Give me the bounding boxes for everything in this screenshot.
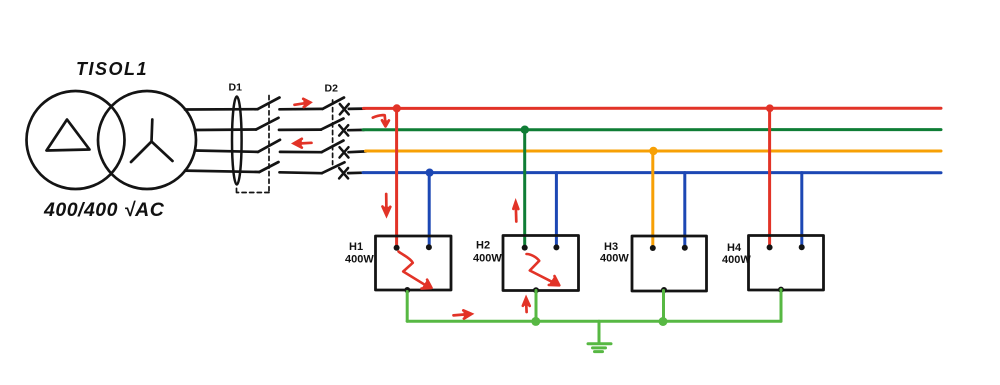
node junction orange L3/H3 — [649, 147, 657, 155]
H1 terminal pin right — [426, 244, 432, 250]
wire red drop to H4 — [768, 108, 771, 247]
wire green drop to H2 — [523, 130, 526, 248]
wire orange drop to H3 — [651, 151, 654, 248]
H4 terminal pin left — [767, 244, 773, 250]
D1 blade L3 — [258, 140, 280, 152]
H4 terminal pin bottom — [778, 287, 784, 293]
svg-text:TISOL1: TISOL1 — [76, 59, 148, 79]
breaker contact X on L2 — [339, 125, 348, 135]
wire L4 D1 to D2 — [280, 171, 322, 175]
wire L3 transformer to D1 — [195, 151, 258, 152]
H2 terminal pin left — [522, 245, 528, 251]
wire blue drop to H4 — [800, 173, 803, 247]
PE wire H4 bottom to earth bus — [780, 290, 783, 322]
wire stub L1 X to bus — [349, 107, 365, 110]
svg-text:H1: H1 — [349, 241, 363, 253]
ground earth symbol — [588, 321, 611, 351]
bus L1 red — [364, 107, 942, 110]
svg-text:D1: D1 — [229, 82, 243, 94]
wire L4 transformer to D1 — [185, 171, 259, 172]
svg-text:H2: H2 — [476, 240, 490, 252]
PE wire H3 bottom to earth bus — [662, 291, 665, 322]
svg-text:400W: 400W — [473, 253, 502, 265]
node junction PE H3 — [659, 317, 668, 326]
current arrow down on red drop — [383, 194, 391, 215]
svg-text:400W: 400W — [722, 254, 751, 266]
svg-text:H3: H3 — [604, 241, 618, 253]
node junction blue L4/H1 — [426, 169, 434, 177]
lamp H2 — [503, 236, 579, 291]
current arrow right above L1 — [295, 99, 311, 107]
current arrow hook into red drop — [373, 115, 389, 126]
D2 blade L3 — [322, 141, 344, 153]
H3 terminal pin right — [682, 245, 688, 251]
wire L1 D1 to D2 — [280, 108, 323, 111]
switch D2 — [321, 98, 345, 174]
fault arrow inside H2 — [527, 254, 560, 285]
bus L2 green — [363, 128, 941, 131]
breaker contact X on L1 — [340, 104, 349, 114]
current arrow right on earth bus — [454, 310, 472, 318]
node junction green L2/H2 — [521, 126, 529, 134]
wire L2 transformer to D1 — [195, 128, 256, 131]
H1 terminal pin bottom — [404, 287, 410, 293]
node junction red L1/H1 — [393, 104, 401, 112]
wire L1 transformer to D1 — [185, 108, 258, 111]
node junction PE H2 — [531, 317, 540, 326]
wire stub L3 X to bus — [349, 150, 367, 154]
H3 terminal pin left — [650, 245, 656, 251]
D2 blade L1 — [323, 98, 345, 109]
bus L4 blue — [363, 171, 941, 174]
wire red drop to H1 — [395, 108, 398, 247]
lamp H1 — [376, 236, 452, 290]
transformer TISOL1 — [27, 91, 197, 189]
svg-text:400W: 400W — [600, 253, 629, 265]
PE wire H1 bottom to earth bus — [406, 292, 409, 322]
H1 terminal pin left — [394, 245, 400, 251]
D2 interlock dashed linkage — [332, 100, 334, 165]
svg-text:H4: H4 — [727, 242, 742, 254]
current arrow up on PE H2 — [523, 298, 530, 312]
H2 terminal pin right — [553, 244, 559, 250]
D1 blade L1 — [258, 98, 280, 110]
svg-text:400/400 √AC: 400/400 √AC — [43, 199, 165, 221]
wire L3 D1 to D2 — [280, 151, 322, 154]
svg-text:D2: D2 — [325, 83, 339, 95]
breaker contact X on L4 — [339, 168, 348, 178]
wire L2 D1 to D2 — [279, 128, 321, 131]
breaker contact X on L3 — [340, 147, 349, 157]
D1 blade L2 — [256, 118, 279, 130]
current arrow up beside green drop — [513, 202, 518, 222]
fault arrow inside H1 — [399, 252, 432, 289]
svg-text:400W: 400W — [345, 254, 374, 266]
wire blue drop to H2 — [555, 173, 558, 248]
H3 terminal pin bottom — [661, 287, 667, 293]
D2 blade L2 — [321, 119, 344, 130]
H4 terminal pin right — [799, 244, 805, 250]
D2 blade L4 — [322, 162, 345, 173]
earth bus green — [407, 320, 781, 323]
D1 interlock dashed linkage — [237, 96, 270, 193]
wire blue drop to H3 — [683, 173, 686, 248]
bus L3 orange — [366, 150, 942, 153]
wire stub L4 X to bus — [348, 171, 364, 174]
lamp H3 — [632, 236, 707, 291]
disconnect switch D1 — [232, 96, 280, 193]
wire stub L2 X to bus — [348, 129, 364, 132]
lamp H4 — [749, 236, 824, 291]
H2 terminal pin bottom — [533, 287, 539, 293]
wire blue drop to H1 — [428, 173, 431, 248]
PE wire H2 bottom to earth bus — [535, 291, 538, 322]
node junction red L1/H4 — [766, 104, 774, 112]
D1 blade L4 — [259, 162, 278, 172]
current arrow left above L3 — [294, 139, 312, 148]
